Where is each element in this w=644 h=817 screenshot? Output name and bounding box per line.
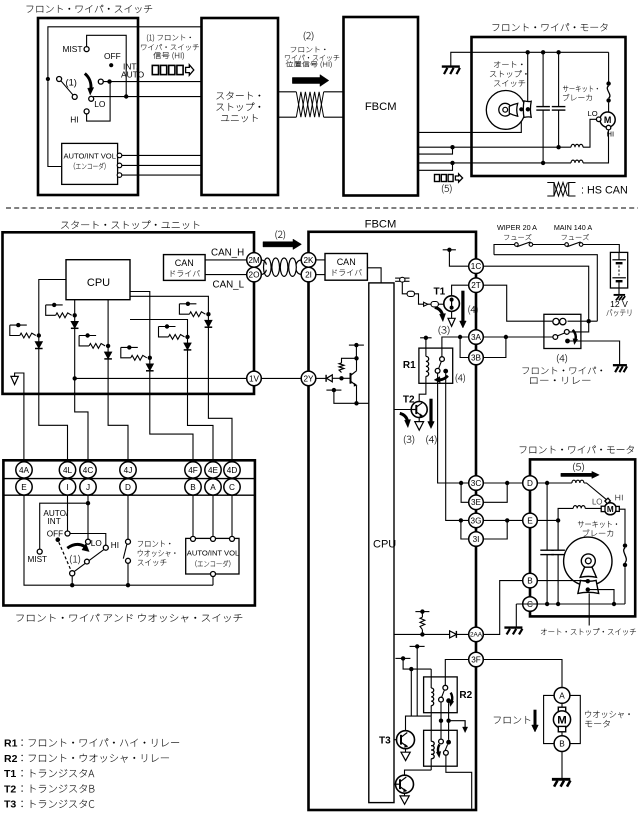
pin C [523, 597, 538, 612]
wire 2K to CANdrv [316, 259, 325, 261]
washer pin A [554, 688, 570, 704]
dashed separator [6, 207, 638, 209]
wire stub down 2Y [355, 345, 357, 358]
wire fuse rail [494, 245, 515, 255]
label pos line2 [285, 55, 339, 61]
junction 2AA pullup [420, 632, 424, 636]
svg-text:E: E [21, 483, 27, 492]
junction m4 [148, 356, 152, 360]
wire breaker to C wire [624, 567, 626, 604]
cap1 bottom plate [536, 109, 550, 111]
wire 3G to E [483, 519, 522, 521]
component U2 [431, 302, 438, 307]
breaker squiggle lower [624, 548, 627, 563]
data symbol (1) [152, 65, 158, 74]
relay R1 coil [426, 356, 429, 376]
wire INT/AUTO to SSU [103, 81, 201, 83]
relay R2 armature [442, 690, 445, 697]
breaker squiggle top [607, 86, 610, 98]
supply stub T3b [395, 657, 410, 659]
junction m6 [206, 312, 210, 316]
junction bus washer [126, 583, 130, 587]
wire lower stub to CPU [334, 390, 369, 403]
text CAN driver FBCM l2 [333, 269, 362, 276]
wire R1 common to 3C [438, 373, 469, 483]
pin 2AA [469, 627, 484, 642]
label wiper motor lower [520, 446, 634, 454]
supply stub 1C [443, 249, 456, 251]
text circuit breaker top l2 [563, 94, 592, 101]
dashed wiper lower [59, 542, 71, 571]
label: front wiper switch [27, 5, 152, 13]
relay R2s box [424, 730, 458, 766]
washer lower terminal [126, 558, 131, 563]
svg-text:A: A [210, 483, 216, 492]
label pos line1 [291, 47, 326, 53]
label (4) R1 [456, 374, 465, 383]
wire T1 emitter to gnd triangle [451, 311, 453, 318]
stub 2Y lower [326, 389, 341, 391]
wire choke to M LO [585, 507, 601, 509]
text LO lower [593, 499, 602, 505]
diode m1 [71, 321, 79, 328]
component U1 [407, 291, 414, 296]
enc pin C [230, 536, 235, 541]
cam follower dot1 [519, 107, 523, 111]
wire cap1 stem lower [546, 483, 548, 550]
pin B lower [185, 479, 201, 495]
wire A to enc [212, 495, 214, 537]
legend T2 text [22, 784, 95, 792]
pin 4J [120, 462, 136, 478]
cam circle lower [564, 537, 612, 585]
wire to 3E [461, 483, 469, 502]
text SSU top l1 [217, 92, 261, 100]
cap1 lower plates [540, 549, 554, 551]
wire motor to B [561, 732, 563, 736]
stub wire LO [418, 147, 453, 154]
wire diode to node [332, 377, 341, 379]
cam follower lower [578, 580, 599, 593]
junction HI stub [450, 161, 454, 165]
wire E to bus [24, 495, 213, 585]
junction 2Y node [339, 376, 343, 380]
svg-text:T1: T1 [4, 768, 16, 780]
wire breaker drop top [608, 52, 610, 81]
wire cap1 drop [542, 52, 544, 106]
wire m3 to 4J [108, 346, 128, 462]
junction relay node [587, 319, 591, 323]
label (3) T1 [439, 326, 450, 335]
wire R1 coil bottom [425, 376, 427, 383]
wire pivot to bus [71, 576, 73, 585]
label (5) lower [573, 463, 584, 472]
resistor m6 [179, 304, 189, 314]
pin B [523, 573, 538, 588]
pin 3G [469, 513, 484, 528]
svg-text:A: A [559, 691, 565, 700]
wire m4 to 4F [150, 358, 193, 462]
svg-text:CAN_H: CAN_H [211, 247, 244, 258]
OFF terminal lower [65, 531, 70, 536]
cam contact dot [526, 107, 530, 111]
wire CPU to 2AA [394, 633, 469, 635]
svg-text:3B: 3B [471, 353, 482, 362]
CAN bus line L top [278, 116, 296, 118]
diode m2 [35, 342, 43, 349]
wire CANdrv to CPU [367, 268, 381, 283]
svg-text:T1: T1 [434, 286, 446, 297]
text autostop switch l2 [490, 70, 527, 77]
diode m3 [104, 352, 112, 359]
diode 2Y triangle [327, 375, 333, 382]
encoder box top [62, 143, 118, 184]
wire Q4 collector [405, 770, 432, 775]
svg-text:(1): (1) [66, 78, 77, 88]
svg-text:T2: T2 [4, 783, 16, 795]
label SSU lower [61, 221, 199, 229]
signal gnd Q4 [400, 796, 409, 804]
junction top wire b [541, 50, 545, 54]
wire OFF to HI [70, 534, 106, 546]
pin 2Y [301, 371, 316, 386]
wire T3 emitter [405, 749, 407, 753]
junction 3A-3B [458, 335, 462, 339]
wire T2 base [394, 409, 411, 411]
pin J lower [80, 479, 96, 495]
svg-text:MIST: MIST [63, 44, 83, 54]
MIST terminal [84, 47, 89, 52]
label lo relay l1 [523, 367, 603, 374]
wire encoder 1 to SSU [122, 154, 202, 156]
wire cap2 stem lower [557, 520, 559, 550]
washer ground [552, 778, 570, 781]
svg-text:LO: LO [91, 539, 102, 548]
fuse WIPER [515, 243, 519, 247]
pin E [523, 513, 538, 528]
FBCM box top [344, 17, 419, 196]
pin 2M [247, 253, 262, 268]
breaker dot1 lower [623, 543, 627, 547]
svg-text:3E: 3E [471, 498, 482, 507]
svg-text:T3: T3 [379, 736, 391, 747]
junction INT/AUTO wire [107, 79, 111, 83]
transistor Q4 [396, 775, 414, 793]
junction LO stub [450, 145, 454, 149]
wire R1 NO to 3G [446, 374, 469, 521]
text SSU top l3 [221, 114, 258, 122]
junction m1 [73, 313, 77, 317]
junction cap1 top lower [545, 481, 549, 485]
CPU box FBCM [369, 283, 394, 803]
wire B to 2AA [483, 581, 522, 635]
junction cap2 bottom top-section [556, 145, 560, 149]
relay R2s contact a [439, 739, 444, 744]
text battery jp [607, 309, 632, 316]
HI terminal [84, 109, 89, 114]
wire common to encoder [48, 81, 62, 166]
svg-text:CPU: CPU [373, 539, 396, 551]
pin 2T [469, 278, 484, 293]
wire CANdrv to 2M [205, 259, 247, 261]
wire C to ground [515, 604, 517, 628]
diode m5 [184, 343, 192, 350]
cam shaft circle top [503, 107, 508, 112]
label (4) relay [557, 354, 567, 363]
svg-text:OFF: OFF [104, 51, 121, 61]
wire node to MIST [40, 503, 88, 549]
junction top wire c [556, 50, 560, 54]
pin 2O [247, 267, 262, 282]
svg-text:LO: LO [588, 109, 598, 118]
wiper switch box [38, 18, 138, 195]
stub tap m3 [79, 335, 96, 337]
svg-text:CAN_L: CAN_L [213, 279, 245, 290]
buffer arrow [424, 302, 428, 306]
text washer motor l1 [585, 711, 629, 719]
wire rail drop to node [494, 255, 597, 322]
wire HI motor2 [583, 130, 609, 163]
text washer l1 [138, 540, 170, 546]
junction top wire a [526, 50, 530, 54]
wire cap2 drop [558, 52, 560, 106]
relay R2 flick [451, 693, 453, 702]
pin D lower [120, 479, 136, 495]
supply stub 2Y [349, 344, 364, 346]
wire to 3I [461, 520, 469, 539]
svg-text:1V: 1V [249, 374, 260, 383]
wire LO to SSU [93, 96, 201, 98]
svg-text:2T: 2T [471, 281, 481, 290]
relay ground [613, 364, 627, 366]
down arrow (4) T2 [429, 399, 432, 423]
wire m1 to 1V node [74, 315, 76, 378]
svg-text:2O: 2O [249, 271, 260, 280]
ground symbol top left [442, 65, 460, 67]
black arrow (2) lower [263, 239, 302, 249]
FBCM box lower [309, 232, 477, 810]
wire encoder 2 to SSU [122, 164, 202, 166]
pin 4F [185, 462, 201, 478]
diode 2AA [450, 631, 457, 638]
CPU box SSU [66, 260, 130, 300]
wire rail to cam contact [527, 52, 529, 109]
signal ground triangle [11, 376, 18, 384]
switch box line mid [3, 478, 255, 480]
svg-text:HI: HI [607, 130, 615, 139]
pivot lower [70, 571, 75, 576]
start-stop unit box lower [3, 232, 255, 394]
legend R1 text [22, 739, 180, 747]
svg-text:4E: 4E [208, 466, 219, 475]
wire washer B to ground [561, 752, 563, 780]
svg-text:AUTO/INT VOL: AUTO/INT VOL [63, 151, 115, 160]
relay LO flick arrow [573, 330, 576, 340]
choke LO top [571, 144, 583, 147]
wire switch common to SSU [48, 27, 202, 79]
stub tap m5 [159, 326, 176, 328]
wire between fuses [533, 244, 565, 246]
svg-text:2AA: 2AA [470, 632, 483, 639]
wiper motor box lower [530, 459, 635, 616]
svg-text:B: B [190, 483, 196, 492]
transistor T1 [444, 296, 460, 312]
pin D [523, 476, 538, 491]
svg-text:3I: 3I [473, 535, 480, 544]
washer motor circle [553, 711, 570, 728]
cam circle top [486, 91, 525, 130]
diode 2Y bar [325, 375, 327, 382]
wire B internal [537, 580, 588, 582]
wire J to node [87, 495, 89, 503]
cam follower top [523, 101, 531, 118]
label (4) T2 [426, 435, 436, 444]
wire stub to R1 coil [425, 338, 427, 357]
encoder pin 1 [117, 153, 122, 158]
label pos line3 [286, 61, 332, 68]
wire 3B outside [483, 337, 506, 358]
choke HI top [571, 160, 583, 163]
svg-text:CPU: CPU [87, 277, 110, 289]
HS CAN zigzag A [554, 183, 568, 197]
text encoder jp lower [195, 560, 230, 567]
washer blade [123, 544, 127, 559]
text washer motor l2 [585, 720, 609, 727]
wire 2Y to diode [316, 377, 326, 379]
CAN driver box FBCM [325, 254, 367, 281]
svg-text:2I: 2I [305, 271, 312, 280]
cam wedge top [509, 103, 517, 116]
wire bus riser [212, 576, 214, 585]
svg-text:2Y: 2Y [303, 374, 314, 383]
choke E [573, 506, 585, 509]
wire R2s common out [446, 755, 472, 809]
CAN driver box SSU [164, 255, 206, 281]
HS CAN zigzag B [554, 183, 568, 197]
wire D internal [537, 482, 572, 484]
LO terminal lower [86, 539, 91, 544]
wire cap2 bottom lower [557, 555, 559, 604]
stub tap m4 [121, 346, 138, 348]
pin 4C [80, 462, 96, 478]
wire CPU pin to m1 [74, 300, 76, 316]
label (2) top [304, 32, 313, 41]
pin 2K [301, 253, 316, 268]
black arrow (2) top [292, 75, 328, 87]
svg-text:WIPER 20 A: WIPER 20 A [497, 223, 537, 232]
encoder pin 3 [117, 173, 122, 178]
svg-text:R2: R2 [4, 753, 18, 765]
wire R2 coil bottom [430, 706, 432, 717]
battery bottom stub [618, 281, 620, 288]
label signal(1) line3 [153, 52, 184, 60]
wire m2 to 4L [39, 336, 68, 462]
relay R1 box [419, 348, 453, 383]
wire 1V to 2Y [261, 377, 301, 379]
svg-text:4F: 4F [188, 466, 198, 475]
junction 3G-3I [459, 518, 463, 522]
wire HI motor [418, 162, 571, 164]
svg-text:1C: 1C [471, 262, 482, 271]
relay LO common [553, 335, 558, 340]
junction 3G3I outside [505, 518, 509, 522]
svg-text:R1: R1 [4, 738, 18, 750]
relay R1 contact NO [443, 369, 448, 374]
text (1) lower [70, 555, 80, 564]
CAN bus line H top [278, 91, 296, 93]
text circuit breaker top l1 [563, 86, 598, 92]
junction R2a [439, 719, 443, 723]
wiper arm lower [74, 549, 104, 571]
label lo relay l2 [530, 377, 590, 384]
motor terminal left [601, 506, 605, 511]
component crystal bars [395, 277, 409, 279]
stub wire HI [418, 163, 453, 170]
relay R2s flick [438, 744, 439, 753]
transistor Q2Y [350, 373, 352, 384]
label switch lower [16, 614, 242, 622]
wire CPU rail to m5 [130, 320, 188, 337]
label (5) top [442, 184, 451, 193]
svg-text:B: B [527, 577, 533, 586]
signal gnd T1 [448, 318, 455, 326]
supply stub R1 [420, 337, 432, 339]
relay R2s contact b [446, 740, 451, 745]
junction cap1 bottom top-section [541, 161, 545, 165]
motor HI terminal lower [605, 498, 611, 504]
wire CPU pin to m3 [107, 300, 109, 346]
CAN bus line H top2 [324, 91, 344, 93]
data symbol (5) top [435, 175, 440, 182]
wiper arm end [72, 94, 77, 99]
cap2 bottom plate [552, 109, 566, 111]
cap1 top plate [536, 106, 550, 108]
signal gnd T2 [415, 422, 424, 431]
wire T2 emitter [418, 418, 420, 422]
wire 2T to relay coil [483, 285, 552, 321]
wire M to breaker [619, 509, 625, 543]
svg-text:3C: 3C [471, 479, 482, 488]
relay LO NC contact [564, 330, 569, 335]
twisted pair zigzag B [296, 92, 323, 117]
pin 3E [469, 495, 484, 510]
junction 3C-3E [459, 481, 463, 485]
battery box [610, 252, 627, 288]
HI terminal lower [103, 545, 108, 550]
label signal(1) line2 [141, 44, 199, 50]
wire 3E outside [483, 483, 507, 502]
wire E up to choke [558, 508, 573, 520]
svg-text:FBCM: FBCM [365, 101, 397, 113]
battery plate long 2 [612, 277, 626, 279]
cam follower dot upper [586, 579, 590, 583]
wire I to OFF [67, 495, 69, 531]
svg-text:12 V: 12 V [610, 299, 628, 309]
OFF position dot [109, 63, 113, 67]
wire 3B internal [460, 337, 469, 358]
wire stub T3b to coil [403, 658, 431, 669]
battery ground [614, 294, 626, 296]
junction m2 [37, 333, 41, 337]
wire 3F to washer A [483, 660, 562, 688]
wire stub to 1C [449, 250, 468, 266]
black arrow (5) lower [561, 471, 599, 478]
relay LO box [544, 314, 581, 348]
wiper motor box top [472, 37, 626, 176]
wire m5 to 4E [188, 337, 214, 462]
relay R1 armature [439, 361, 442, 369]
svg-text:AUTO/INT VOL: AUTO/INT VOL [187, 549, 239, 558]
